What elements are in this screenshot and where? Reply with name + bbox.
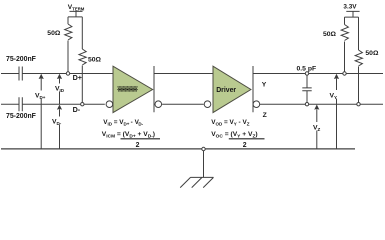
- svg-text:Y: Y: [262, 81, 267, 88]
- svg-text:VID = VD+ - VD-: VID = VD+ - VD-: [103, 119, 143, 126]
- svg-text:D-: D-: [73, 105, 81, 114]
- svg-text:D+: D+: [73, 73, 82, 82]
- svg-text:50Ω: 50Ω: [365, 50, 379, 57]
- svg-text:3.3V: 3.3V: [343, 4, 357, 11]
- svg-text:50Ω: 50Ω: [323, 31, 337, 38]
- svg-text:50Ω: 50Ω: [88, 57, 102, 64]
- svg-text:2: 2: [243, 142, 247, 149]
- svg-text:75-200nF: 75-200nF: [6, 113, 36, 120]
- svg-text:Driver: Driver: [216, 87, 236, 94]
- svg-text:75-200nF: 75-200nF: [6, 56, 36, 63]
- svg-text:2: 2: [136, 142, 140, 149]
- svg-text:50Ω: 50Ω: [47, 30, 61, 37]
- svg-text:Z: Z: [263, 112, 267, 119]
- svg-text:VTERM: VTERM: [68, 4, 85, 11]
- svg-text:VOD = VY - VZ: VOD = VY - VZ: [211, 119, 250, 126]
- svg-text:0.5 pF: 0.5 pF: [297, 65, 317, 72]
